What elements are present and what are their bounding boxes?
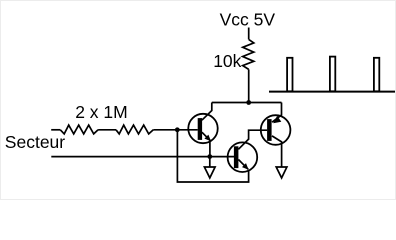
- waveform pulse 1: [287, 58, 292, 92]
- resistor 10k (vertical zigzag): [243, 39, 254, 69]
- waveform baseline: [269, 91, 395, 93]
- ground symbol right: [276, 167, 287, 178]
- transistor Q2 (NPN): [228, 139, 258, 172]
- resistor R2 1M (horizontal zigzag): [116, 125, 153, 134]
- wire resistor bottom to node OUT: [248, 69, 250, 102]
- node OUT junction: [246, 100, 251, 105]
- wire Vcc to resistor top: [248, 28, 250, 40]
- node B junction (Q1 emitter / neutral / ground): [207, 154, 212, 159]
- resistor R1 1M (horizontal zigzag): [60, 125, 98, 134]
- transistor Q3 (PNP): [261, 103, 291, 168]
- svg-text:2 x 1M: 2 x 1M: [75, 102, 128, 122]
- svg-text:Vcc 5V: Vcc 5V: [220, 9, 276, 29]
- waveform pulse 2: [330, 57, 335, 92]
- wire Secteur phase stub: [51, 129, 60, 131]
- value label 2 x 1M: [75, 102, 128, 122]
- wire between R1 and R2: [98, 129, 116, 131]
- wire node A to Q2 emitter (cross-coupling loop): [177, 130, 248, 182]
- transistor Q1 (NPN): [188, 103, 217, 157]
- svg-text:10k: 10k: [213, 51, 241, 71]
- wire collector bus (Q1 collector to Q3 collector): [212, 102, 282, 104]
- ground symbol left: [204, 157, 215, 178]
- svg-text:Secteur: Secteur: [5, 132, 65, 152]
- waveform pulse 3: [374, 58, 379, 92]
- wire Secteur neutral to Q2 base: [51, 156, 234, 158]
- wire Q2 collector to Q3 base: [249, 130, 268, 140]
- node A junction (resistor / Q1 base / Q2 emitter): [175, 127, 180, 132]
- net label Vcc 5V: [220, 9, 276, 29]
- value label 10k: [213, 51, 241, 71]
- net label Secteur: [5, 132, 65, 152]
- wire R2 to Q1 base: [153, 129, 197, 131]
